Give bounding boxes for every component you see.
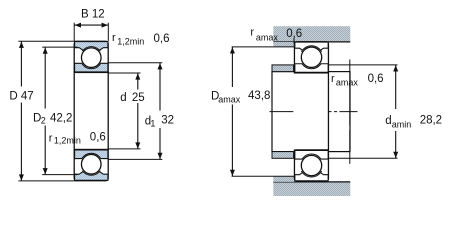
svg-text:amax: amax	[256, 32, 279, 42]
svg-text:43,8: 43,8	[248, 90, 270, 102]
svg-text:2: 2	[41, 116, 46, 126]
svg-text:0,6: 0,6	[154, 33, 170, 45]
svg-text:r: r	[49, 133, 53, 145]
svg-text:B 12: B 12	[81, 9, 105, 21]
svg-text:amax: amax	[336, 78, 359, 88]
svg-text:d: d	[385, 115, 391, 127]
svg-text:D 47: D 47	[9, 91, 33, 103]
svg-text:32: 32	[161, 114, 174, 126]
svg-text:1,2min: 1,2min	[54, 136, 81, 146]
svg-text:1,2min: 1,2min	[117, 36, 144, 46]
svg-text:25: 25	[132, 92, 145, 104]
svg-text:1: 1	[150, 119, 155, 129]
svg-text:42,2: 42,2	[50, 112, 72, 124]
svg-text:28,2: 28,2	[420, 114, 442, 126]
svg-text:r: r	[331, 73, 335, 85]
svg-text:0,6: 0,6	[90, 132, 106, 144]
svg-text:r: r	[112, 32, 116, 44]
svg-text:0,6: 0,6	[368, 73, 384, 85]
svg-text:r: r	[250, 27, 254, 39]
svg-text:amin: amin	[392, 119, 412, 129]
svg-text:d: d	[120, 92, 126, 104]
svg-text:amax: amax	[218, 95, 241, 105]
